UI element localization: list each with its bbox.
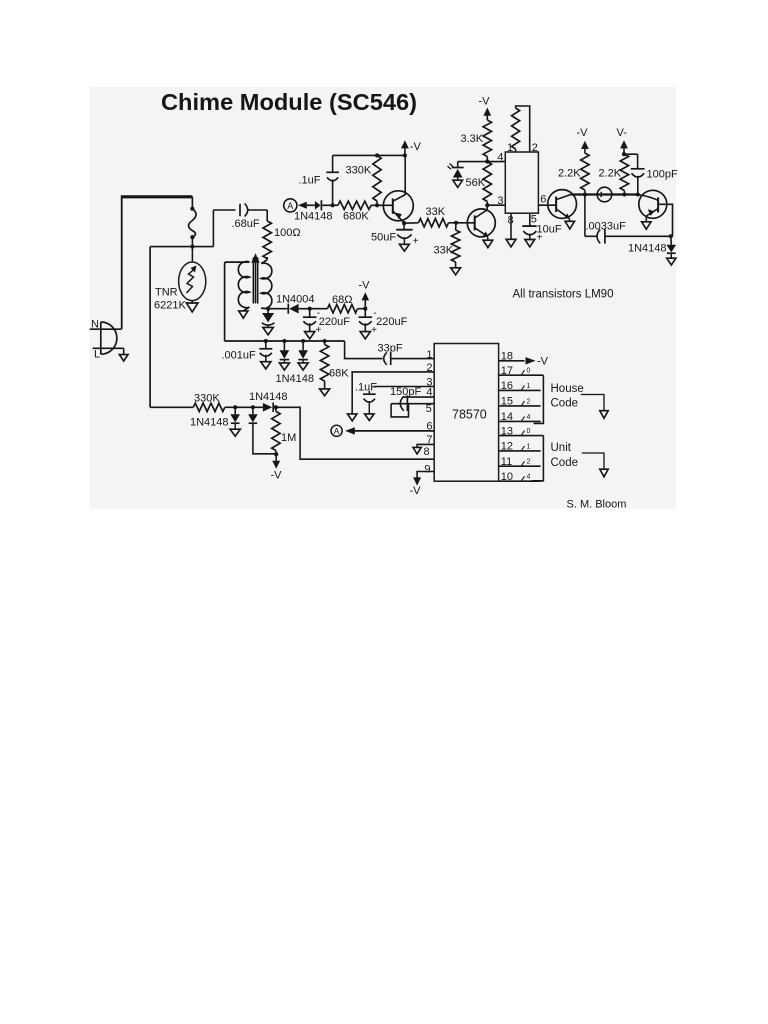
wire pin4 (403, 396, 434, 398)
wire (283, 341, 285, 350)
svg-text:680K: 680K (343, 211, 369, 223)
wire (368, 391, 370, 394)
speaker plus v (600, 192, 602, 197)
diode bar (272, 403, 274, 412)
junction (622, 192, 626, 196)
ground 1N4148 right (667, 258, 676, 265)
transistor Q1 collector (393, 155, 405, 201)
resistor 1M (272, 411, 280, 450)
ground 50uF (400, 244, 410, 251)
wire pin2 to ground (352, 372, 434, 414)
wire mains top thick (121, 195, 192, 198)
svg-text:1N4148: 1N4148 (294, 211, 333, 223)
resistor 330K top (373, 155, 381, 201)
line squiggle (189, 209, 197, 238)
transformer core line (257, 258, 259, 304)
photodiode light mark (450, 164, 454, 168)
svg-text:Code: Code (551, 457, 579, 469)
wire (266, 210, 268, 221)
resistor 330K (193, 403, 225, 411)
node A circle (331, 425, 342, 436)
svg-text:2: 2 (532, 142, 538, 154)
wire (455, 223, 457, 230)
svg-text:-V: -V (410, 141, 422, 153)
junction (583, 192, 587, 196)
wire pin3 (374, 386, 435, 388)
svg-text:House: House (551, 383, 584, 395)
resistor 100ohm (263, 221, 271, 259)
arrowhead to node A (298, 202, 307, 209)
ground transformer primary (239, 311, 248, 318)
svg-text:1M: 1M (281, 432, 296, 444)
junction (190, 235, 194, 239)
wire pin14 (499, 420, 541, 422)
arrowhead to node A (345, 427, 355, 434)
capacitor .1uF curved plate (364, 399, 375, 403)
resistor 68K (320, 345, 328, 382)
ground 220uF (305, 332, 315, 339)
svg-text:100Ω: 100Ω (274, 227, 301, 239)
svg-text:All transistors LM90: All transistors LM90 (513, 288, 614, 300)
diode bar (667, 252, 676, 254)
wire (302, 360, 304, 363)
wire (212, 210, 214, 247)
arrow -V top (401, 140, 409, 148)
diode 1N4148 triangle (280, 350, 290, 359)
transformer arrow shaft (255, 261, 257, 303)
svg-text:33pF: 33pF (378, 343, 403, 355)
capacitor 220uF curved plate (303, 321, 316, 325)
diode bar (231, 422, 240, 424)
diode curved cathode (262, 323, 275, 325)
junction (485, 203, 489, 207)
wire (150, 406, 193, 408)
wire (368, 401, 370, 414)
svg-text:+: + (413, 236, 419, 247)
wire N line (90, 328, 122, 330)
arrow -V 3.3K (483, 108, 491, 116)
transistor Q2 base bar (474, 215, 476, 230)
svg-text:A: A (334, 426, 340, 436)
wire (310, 308, 328, 310)
svg-text:2.2K: 2.2K (599, 168, 622, 180)
svg-text:3: 3 (497, 195, 503, 207)
svg-text:-V: -V (271, 470, 283, 482)
diode D 1N4004 bar (287, 304, 289, 314)
svg-text:1N4148: 1N4148 (628, 242, 667, 254)
varistor arrowhead (191, 266, 197, 273)
capacitor 100pF curved plate (632, 173, 645, 177)
transistor Q2 emitter arrow (483, 232, 489, 237)
transformer core line (255, 258, 257, 304)
capacitor .001uF plate (259, 348, 272, 350)
ground L (119, 355, 128, 361)
transformer secondary coil (261, 263, 272, 308)
wire (670, 236, 673, 245)
wire (191, 237, 193, 247)
switch mark pin 16 (522, 385, 525, 390)
arrowhead pin18 -V (526, 357, 536, 364)
switch mark pin 14 (522, 416, 525, 421)
ground 10uF (525, 240, 535, 247)
wire (403, 223, 405, 230)
diode 1N4148 series triangle (263, 403, 272, 412)
transistor Q2 (467, 209, 495, 237)
wire (371, 204, 393, 206)
wire bus (225, 340, 345, 342)
wire pin13 to bracket (499, 435, 544, 437)
junction (323, 339, 327, 343)
ground Q2 (483, 240, 493, 247)
wire (486, 115, 488, 121)
junction (274, 452, 278, 456)
svg-text:A: A (287, 201, 293, 211)
wire mains left vertical (121, 197, 123, 329)
transistor Q3 collector (556, 195, 571, 200)
svg-text:1N4148: 1N4148 (190, 417, 229, 429)
transistor Q4 base bar (657, 197, 659, 212)
wire pin5 loop (391, 404, 408, 417)
varistor zigzag (187, 269, 196, 294)
capacitor 33pF plate (390, 352, 392, 365)
wire (234, 423, 236, 429)
wire (265, 341, 267, 349)
wire (283, 360, 285, 363)
svg-text:8: 8 (424, 446, 430, 458)
wire (358, 308, 366, 310)
wire (275, 451, 277, 455)
arrow pin9 -V (413, 477, 421, 485)
wire (457, 162, 459, 168)
junction (251, 405, 255, 409)
photodiode bar (452, 167, 464, 169)
unit code bracket (532, 436, 544, 481)
wire pin1 IC1 (515, 149, 517, 152)
transistor Q3 emitter (556, 209, 569, 218)
junction (274, 405, 278, 409)
wire (123, 348, 125, 354)
ground 220uF (360, 332, 370, 339)
diode bar (298, 359, 308, 361)
svg-text:V-: V- (617, 127, 628, 139)
svg-text:.001uF: .001uF (222, 350, 257, 362)
wire (253, 406, 263, 408)
svg-text:4: 4 (527, 474, 531, 481)
junction node (190, 245, 194, 249)
svg-text:6221K: 6221K (154, 300, 186, 312)
wire (275, 407, 277, 411)
transistor Q4 emitter arrow (648, 209, 655, 216)
wire (404, 147, 406, 155)
wire left vertical (149, 247, 151, 408)
open arrow below TNR (186, 303, 198, 312)
wire pin15 (499, 405, 541, 407)
node A circle top (284, 199, 297, 212)
wire (364, 323, 366, 331)
arrow -V (272, 461, 280, 469)
wire (265, 355, 267, 362)
svg-text:.1uF: .1uF (299, 175, 321, 187)
diode below transformer triangle (262, 313, 274, 322)
svg-text:TNR: TNR (155, 287, 178, 299)
svg-text:.68uF: .68uF (232, 218, 260, 230)
wire pin4 IC1 (458, 161, 506, 163)
wire (321, 204, 338, 206)
wire (624, 153, 638, 155)
resistor 680K (338, 201, 371, 209)
capacitor 10uF curved plate (523, 231, 536, 235)
svg-text:-V: -V (410, 485, 422, 497)
ground .001uF (261, 362, 271, 369)
transistor Q4 base wire (638, 195, 658, 201)
svg-text:4: 4 (527, 414, 531, 421)
junction (669, 234, 673, 238)
wire top rail (333, 154, 405, 156)
wire pin9 (417, 472, 434, 478)
transistor Q1 (383, 191, 413, 221)
svg-text:150pF: 150pF (390, 386, 421, 398)
wire (234, 407, 236, 414)
ground diode (279, 363, 289, 370)
junction (264, 339, 268, 343)
wire (243, 307, 249, 311)
transistor Q4 (639, 190, 667, 218)
wire pin18 (499, 360, 525, 362)
svg-text:56K: 56K (466, 177, 486, 189)
svg-text:1: 1 (527, 383, 531, 390)
wire (266, 257, 268, 260)
ground Q4 (642, 222, 651, 229)
switch mark pin 17 (522, 370, 525, 375)
ground (263, 327, 273, 334)
capacitor 10uF plate (522, 225, 536, 227)
capacitor C .68uF plate (239, 204, 241, 216)
ground pin2 (348, 414, 357, 421)
transistor Q1 base bar (392, 199, 394, 214)
switch mark pin 15 (522, 401, 525, 406)
junction emitter (402, 221, 406, 225)
svg-text:78570: 78570 (452, 408, 487, 422)
switch mark pin 13 (522, 431, 525, 436)
wire (585, 235, 598, 237)
wire (364, 299, 366, 309)
wire (404, 222, 418, 224)
wire pin17 to bracket (499, 374, 544, 376)
diode 1N4148 right triangle (667, 245, 677, 253)
svg-text:1: 1 (426, 349, 432, 361)
wire (299, 308, 310, 310)
junction (190, 207, 194, 211)
varistor TNR 6221K (179, 262, 206, 301)
arrow V- right (620, 140, 628, 148)
wire (332, 155, 334, 172)
transformer core line (252, 258, 254, 304)
wire (637, 176, 639, 195)
ground 33K (451, 268, 461, 275)
svg-text:S. M. Bloom: S. M. Bloom (567, 499, 627, 511)
ground .1uF (365, 414, 374, 421)
speaker plus h (599, 194, 604, 196)
svg-text:5: 5 (426, 403, 432, 415)
wire (252, 407, 254, 414)
wire (261, 260, 267, 264)
svg-text:.0033uF: .0033uF (586, 221, 627, 233)
capacitor .0033uF plate (604, 229, 606, 244)
junction (308, 307, 312, 311)
capacitor C .68uF curved plate (245, 204, 248, 217)
wire (275, 454, 277, 461)
wire rail (571, 193, 639, 195)
svg-text:.1uF: .1uF (355, 382, 377, 394)
wire (364, 309, 366, 318)
wire pin5 (391, 403, 434, 405)
wire (324, 341, 326, 345)
svg-text:50uF: 50uF (371, 232, 396, 244)
junction (403, 153, 407, 157)
capacitor 220uF plate (303, 316, 317, 318)
transistor Q1 emitter arrow (395, 213, 401, 220)
photodiode light mark (448, 166, 452, 169)
capacitor 150pF plate (406, 395, 408, 411)
wire (150, 246, 213, 248)
svg-text:L: L (94, 349, 100, 361)
wire to pin8 (276, 407, 434, 459)
diode 1N4148 triangle top (315, 201, 321, 210)
capacitor 50uF plate (396, 229, 412, 231)
svg-text:1N4148: 1N4148 (276, 373, 315, 385)
wire transformer primary to bus (225, 262, 250, 341)
IC U1 box (505, 152, 538, 213)
wire (637, 154, 639, 169)
wire (267, 325, 269, 328)
svg-text:68Ω: 68Ω (332, 294, 352, 306)
resistor 68ohm (327, 305, 357, 313)
svg-text:3.3K: 3.3K (461, 133, 484, 145)
resistor 3.3K (483, 120, 491, 157)
transformer arrow head (251, 253, 259, 263)
wire pin8 IC1 (510, 213, 512, 239)
wire (213, 209, 235, 211)
wire diode to 1M bottom (253, 423, 277, 454)
ground 68K (320, 389, 330, 396)
wire (455, 262, 457, 268)
svg-text:Code: Code (551, 398, 579, 410)
ground Q3 (565, 221, 574, 229)
ground diode (298, 363, 308, 370)
resistor 33K horizontal (419, 219, 449, 227)
transformer primary coil (238, 262, 249, 308)
capacitor 100pF plate (631, 168, 645, 170)
diode 1N4148 triangle (230, 414, 240, 422)
ground unit code (600, 469, 608, 477)
resistor 56K (483, 162, 491, 202)
junction (636, 192, 640, 196)
wire (248, 209, 268, 211)
svg-text:10uF: 10uF (537, 224, 562, 236)
wire (307, 204, 315, 206)
svg-text:2: 2 (527, 459, 531, 466)
ground photodiode (453, 180, 463, 187)
diode bar (249, 422, 258, 424)
wire (267, 309, 269, 313)
svg-text:2: 2 (527, 398, 531, 405)
svg-text:4: 4 (497, 152, 503, 164)
transistor Q2 emitter (475, 228, 488, 237)
junction (266, 307, 270, 311)
wire pin10 (499, 480, 541, 482)
scanned schematic grey background (90, 87, 677, 509)
svg-text:1N4004: 1N4004 (276, 294, 315, 306)
junction (282, 339, 286, 343)
svg-text:68K: 68K (329, 368, 349, 380)
wire pin12 (499, 450, 541, 452)
svg-text:2.2K: 2.2K (558, 168, 581, 180)
arrow -V right (581, 141, 589, 149)
svg-text:220uF: 220uF (376, 316, 407, 328)
wire to pin1 (391, 358, 435, 360)
diode 1N4148 triangle (248, 414, 258, 422)
transistor Q4 collector wire (658, 204, 672, 236)
ground pin8 IC1 (506, 239, 516, 247)
diode bar (320, 200, 322, 210)
wire unit code ground (582, 453, 604, 469)
capacitor .001uF curved plate (260, 353, 272, 357)
wire (273, 406, 276, 408)
ground house code (600, 411, 608, 419)
wire L line (93, 347, 124, 349)
switch mark pin 10 (522, 476, 525, 481)
svg-text:1: 1 (507, 142, 513, 154)
speaker circle (597, 187, 612, 202)
wire bus to 33pF (345, 341, 383, 359)
transistor Q3 emitter arrow (564, 213, 570, 218)
wire down from rail (584, 195, 586, 237)
diode bar (280, 359, 290, 361)
resistor 2.2K first (581, 153, 589, 190)
capacitor .0033uF curved plate (597, 229, 600, 243)
svg-text:1N4148: 1N4148 (249, 391, 288, 403)
wire (191, 247, 193, 263)
ground diode (230, 429, 240, 436)
wire (309, 323, 311, 331)
capacitor 220uF curved plate (359, 321, 372, 325)
wire (324, 381, 326, 389)
svg-text:100pF: 100pF (647, 169, 678, 181)
junction (233, 405, 237, 409)
transistor Q1 emitter (393, 211, 404, 223)
photodiode triangle (453, 169, 463, 178)
wire (302, 341, 304, 350)
wire (403, 237, 405, 244)
wire pin7 (417, 444, 434, 447)
svg-text:33K: 33K (426, 206, 446, 218)
house code bracket (534, 375, 544, 423)
junction (301, 339, 305, 343)
resistor above IC1 (512, 108, 520, 149)
svg-text:-V: -V (359, 280, 371, 292)
junction (375, 203, 379, 207)
wire pin11 (499, 465, 541, 467)
wire (235, 406, 253, 408)
svg-text:9: 9 (424, 463, 430, 475)
wire pin6 (354, 430, 434, 432)
capacitor 150pF curved plate (400, 396, 404, 411)
wire to Q2 base (456, 222, 475, 224)
svg-text:6: 6 (540, 194, 546, 206)
junction (454, 221, 458, 225)
svg-text:-V: -V (577, 127, 589, 139)
capacitor .1uF curved plate (327, 177, 338, 180)
